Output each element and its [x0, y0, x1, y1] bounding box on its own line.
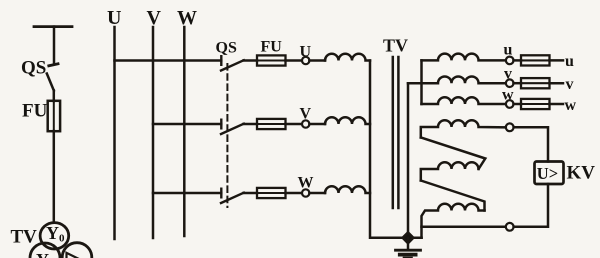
secondary neutral earthing lead [408, 83, 422, 238]
node V terminal [302, 120, 309, 127]
disconnector QS pole 3 [221, 189, 244, 203]
svg-text:QS: QS [21, 58, 46, 79]
primary neutral wire down to earth [370, 61, 422, 238]
wire node V to primary winding [309, 123, 325, 126]
wire node w to fuse [514, 103, 522, 106]
TV primary winding phase W [325, 186, 370, 193]
disconnector QS pole 2 [221, 120, 244, 134]
fuse w [521, 99, 550, 109]
svg-text:u: u [565, 53, 574, 70]
open-delta mark in lower-right circle [67, 253, 83, 258]
terminal wire v [550, 82, 564, 85]
svg-text:QS: QS [216, 40, 237, 57]
fuse FU phase U [257, 55, 286, 65]
earth junction [403, 232, 414, 243]
node w [506, 100, 514, 108]
TV core (two bars) [392, 57, 395, 208]
wire row W from bus V [153, 192, 221, 195]
wire node U to primary winding [309, 59, 325, 62]
wire FU down to TV primary [53, 131, 56, 223]
node on open-delta bottom output [506, 223, 514, 231]
wire FU3 to node W [286, 192, 303, 195]
wire node to relay (top) [514, 127, 548, 161]
svg-text:w: w [565, 97, 577, 114]
wire node to relay (bottom) [514, 184, 548, 227]
disconnector QS (left, single-line) [47, 64, 58, 91]
wire from busbar down to QS [53, 27, 56, 64]
svg-text:V: V [300, 106, 312, 123]
disconnector QS pole 1 [221, 56, 244, 70]
wire row U from bus U [115, 59, 222, 62]
TV primary winding phase V [325, 117, 370, 124]
svg-text:v: v [566, 76, 574, 93]
overvoltage relay KV box [535, 162, 564, 185]
terminal wire w [550, 103, 564, 106]
wire node u to fuse [514, 59, 522, 62]
bus U vertical [113, 27, 116, 239]
svg-text:U>: U> [537, 164, 558, 183]
node W terminal [302, 189, 309, 196]
fuse u [521, 55, 550, 65]
open-delta winding 1 (top) [421, 120, 506, 137]
svg-text:TV: TV [11, 227, 38, 248]
wire FU2 to node V [286, 123, 303, 126]
wire QS1 to FU1 [244, 59, 258, 62]
secondary star bus [420, 60, 423, 104]
node U terminal [302, 57, 309, 64]
open-delta bottom output wire [422, 226, 506, 229]
QS gang linkage (dashed) [226, 64, 228, 207]
svg-text:W: W [177, 7, 197, 29]
TV primary winding phase U [325, 54, 370, 61]
svg-text:V: V [147, 7, 162, 29]
wire row V from bus V [153, 123, 221, 126]
node on open-delta top output [506, 123, 514, 131]
svg-text:TV: TV [383, 36, 408, 56]
svg-text:KV: KV [567, 163, 596, 184]
svg-text:U: U [107, 7, 121, 29]
incoming busbar T at top left [34, 25, 72, 28]
secondary winding w [422, 97, 506, 104]
open-delta winding 2 (middle) [421, 162, 479, 180]
wire node v to fuse [514, 82, 522, 85]
fuse FU phase W [257, 188, 286, 198]
ground symbol [396, 238, 421, 258]
svg-text:v: v [504, 66, 512, 83]
node u [506, 57, 514, 65]
wire QS3 to FU3 [244, 192, 258, 195]
svg-text:W: W [298, 175, 314, 192]
svg-text:FU: FU [22, 101, 48, 122]
bus W vertical [183, 27, 186, 236]
node v [506, 79, 514, 87]
wire QS to FU [53, 91, 56, 102]
series link winding2-winding3 (diagonal) [421, 181, 485, 211]
terminal wire u [550, 59, 564, 62]
svg-text:U: U [300, 44, 312, 61]
voltage transformer TV (three-winding symbol, bottom left) [30, 223, 92, 258]
fuse v [521, 78, 550, 88]
wire FU1 to node U [286, 59, 303, 62]
bus V vertical [152, 27, 155, 238]
svg-text:u: u [504, 42, 513, 59]
svg-text:FU: FU [261, 39, 283, 56]
fuse FU phase V [257, 119, 286, 129]
secondary winding u [422, 54, 506, 61]
series link winding1-winding2 (diagonal) [421, 138, 486, 169]
wire QS2 to FU2 [244, 123, 258, 126]
svg-text:Y: Y [36, 250, 49, 258]
open-delta winding 3 (bottom) [422, 204, 485, 238]
fuse FU (left, vertical) [48, 101, 60, 131]
secondary winding v [408, 76, 506, 83]
wire winding1 right end to node [505, 126, 508, 129]
svg-text:w: w [502, 87, 514, 104]
wire node W to primary winding [309, 192, 325, 195]
